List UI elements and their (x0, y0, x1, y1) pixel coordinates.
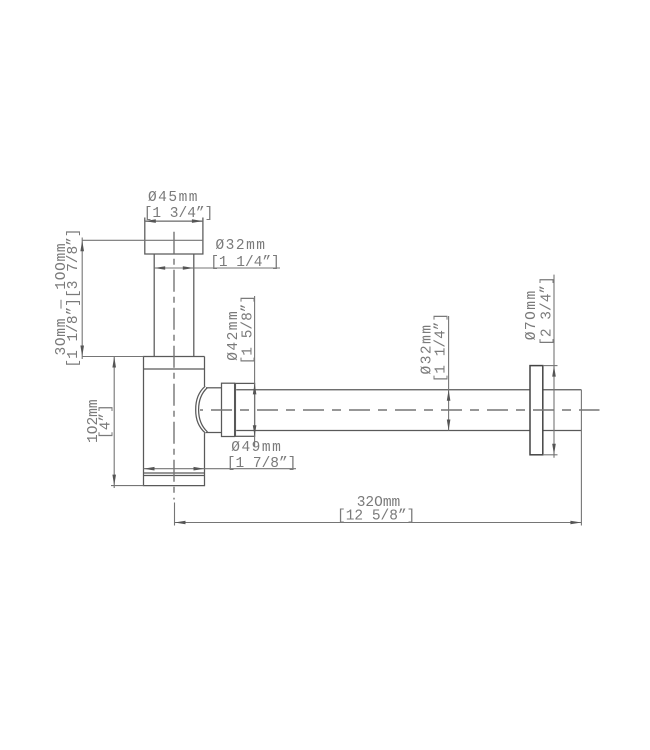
arrow 42mm up (253, 383, 257, 394)
svg-text:[1 3/4”]: [1 3/4”] (144, 206, 214, 222)
arrow 49mm right (194, 467, 205, 471)
centerline vertical (riser axis) (173, 232, 175, 500)
centerline horizontal (pipe axis) (200, 409, 600, 411)
inlet tube left edge (153, 254, 155, 357)
wire: cap extension overshoot left (144, 218, 146, 222)
elbow ball outer arc (196, 386, 206, 433)
svg-text:[12 5/8”]: [12 5/8”] (337, 509, 415, 525)
arrow 102 down (112, 475, 116, 486)
svg-text:[1 1/4”]: [1 1/4”] (434, 313, 450, 383)
compression nut N1 (222, 383, 235, 436)
pipe bottom edge (left of flange) (236, 430, 530, 432)
dim 102 vertical line (113, 357, 115, 489)
ext line flange top (543, 365, 558, 367)
dim 49mm line (144, 468, 297, 470)
wall flange F1 (530, 366, 543, 455)
pipe top edge (left of flange) (236, 389, 530, 391)
arrow 42mm down (253, 425, 257, 436)
arrow 32mm inlet right (183, 266, 194, 270)
arrow 45mm right (192, 219, 203, 223)
svg-text:Ø49mm: Ø49mm (231, 440, 282, 456)
body bottom seam 2 (144, 475, 205, 477)
elbow neck top line (206, 387, 222, 389)
arrow 320 right (570, 521, 581, 525)
svg-text:[2 3/4”]: [2 3/4”] (540, 276, 556, 346)
elbow ball inner arc (199, 388, 208, 432)
pipe end / ext line 320 right (580, 390, 582, 526)
dim 42mm vertical line (254, 296, 256, 447)
arrow 45mm left (145, 219, 156, 223)
body B1 outline (144, 357, 205, 486)
dim 30-100 vertical line (81, 238, 83, 360)
arrow 49mm left (144, 467, 155, 471)
ext line flange bottom (543, 454, 558, 456)
svg-text:Ø7Omm: Ø7Omm (524, 289, 540, 340)
dim 32mm inlet line (154, 267, 280, 269)
arrow 32mm inlet left (154, 266, 165, 270)
arrow 32mm pipe up (447, 390, 451, 401)
svg-text:Ø45mm: Ø45mm (148, 190, 199, 206)
dim 320 line (175, 522, 582, 524)
dim 45mm line (145, 220, 203, 222)
svg-text:[1 1/4”]: [1 1/4”] (210, 255, 280, 271)
svg-text:Ø32mm: Ø32mm (215, 238, 266, 254)
dim 32mm pipe vertical line (448, 316, 450, 431)
cap C1 (top nut of riser) (145, 221, 203, 254)
dim 70mm vertical line (553, 275, 555, 458)
ext line body bottom (111, 485, 144, 487)
svg-text:[4”]: [4”] (99, 404, 115, 439)
arrow 102 up (112, 357, 116, 368)
ext line cap seam (82, 239, 203, 241)
arrow 30-100 down (80, 346, 84, 357)
arrow 32mm pipe down (447, 420, 451, 431)
svg-text:[1 5/8”]: [1 5/8”] (241, 295, 257, 365)
inlet tube right edge (193, 254, 195, 357)
nut face double line (234, 383, 236, 436)
arrow 320 left (175, 521, 186, 525)
body bottom seam 1 (144, 472, 205, 474)
arrow 70mm up (552, 366, 556, 377)
pipe top edge (right of flange) (543, 389, 582, 391)
pipe bottom edge (right of flange) (543, 430, 582, 432)
arrow 70mm down (552, 444, 556, 455)
ext line body top (82, 356, 143, 358)
wire: cap extension overshoot right (202, 218, 204, 222)
svg-text:[1 7/8”]: [1 7/8”] (227, 456, 297, 472)
collar ring (235, 383, 254, 436)
ext line 320 left (174, 503, 176, 526)
arrow 30-100 up (80, 240, 84, 251)
svg-text:[1 1/8”][3 7/8”]: [1 1/8”][3 7/8”] (66, 228, 82, 367)
elbow neck bottom line (206, 432, 222, 434)
body top seam (144, 368, 205, 370)
